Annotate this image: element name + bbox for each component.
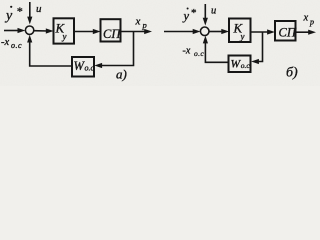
svg-text:р: р <box>309 18 314 27</box>
svg-text:u: u <box>36 3 42 15</box>
svg-text:-x: -x <box>1 37 9 48</box>
svg-text:у: у <box>62 32 67 42</box>
svg-text:*: * <box>191 7 197 19</box>
svg-text:x: x <box>135 16 141 28</box>
svg-text:y: y <box>182 9 190 23</box>
svg-text:u: u <box>211 6 216 17</box>
svg-text:*: * <box>16 4 22 18</box>
svg-text:о.с: о.с <box>194 49 204 58</box>
svg-text:у: у <box>240 32 245 42</box>
svg-text:о.с: о.с <box>241 61 251 70</box>
svg-text:р: р <box>142 20 147 30</box>
svg-text:а): а) <box>116 67 127 82</box>
svg-text:СП: СП <box>103 27 121 41</box>
svg-text:СП: СП <box>279 25 297 39</box>
svg-text:о.с: о.с <box>85 64 95 73</box>
svg-text:о.с: о.с <box>11 41 22 50</box>
svg-text:x: x <box>303 13 309 24</box>
svg-text:б): б) <box>286 66 298 81</box>
svg-text:-x: -x <box>183 46 191 57</box>
svg-text:y: y <box>4 9 13 24</box>
